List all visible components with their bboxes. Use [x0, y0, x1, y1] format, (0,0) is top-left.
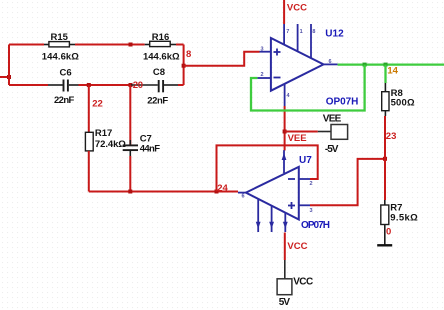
- node junction at top centre (node 20 branch): [129, 43, 133, 47]
- wire: mid row to C6: [9, 84, 48, 86]
- svg-text:1: 1: [300, 29, 303, 35]
- svg-text:R7: R7: [390, 202, 402, 213]
- svg-text:VEE: VEE: [323, 114, 342, 125]
- wire: node 8 vertical: [183, 45, 185, 86]
- VEE power box: [323, 114, 348, 155]
- pin 8 lead: [310, 24, 312, 58]
- wire: C7 down to bottom row: [129, 156, 131, 192]
- svg-text:14: 14: [387, 65, 398, 76]
- svg-text:20: 20: [133, 80, 143, 91]
- svg-text:3: 3: [261, 47, 264, 53]
- pin 1 lead: [297, 24, 299, 52]
- ground: [377, 244, 392, 246]
- resistor R8: [382, 88, 415, 111]
- pin 4 lead: [284, 84, 286, 106]
- wire: C6 to node 22 junction: [79, 84, 131, 86]
- svg-text:6: 6: [329, 59, 332, 65]
- wire: between R15 and R16: [75, 44, 145, 46]
- op-amp U12: [257, 24, 358, 107]
- resistor R7: [381, 202, 418, 224]
- wire: node 8 to U12 pin3 path: [184, 52, 260, 66]
- wire: node 20 vertical down to C7: [129, 85, 131, 145]
- junction at C7 bottom: [128, 190, 132, 194]
- svg-text:72.4kΩ: 72.4kΩ: [95, 139, 126, 150]
- svg-text:VEE: VEE: [288, 133, 307, 144]
- pin 5 lead with down arrow: [271, 206, 273, 232]
- wire: node 22 vertical down to R17: [88, 85, 90, 132]
- resistor R16: [143, 32, 180, 62]
- svg-text:OP07H: OP07H: [326, 96, 359, 107]
- wire: R16 out to corner: [176, 44, 184, 46]
- svg-text:22: 22: [92, 99, 103, 110]
- svg-text:2: 2: [310, 181, 313, 187]
- resistor R17: [85, 128, 126, 151]
- svg-text:23: 23: [386, 131, 397, 142]
- green junction at feedback: [363, 63, 367, 67]
- wire: R7 to ground: [384, 225, 386, 246]
- svg-text:C6: C6: [60, 67, 72, 78]
- wire: left vertical: [8, 45, 10, 86]
- pin 6 output lead: [324, 63, 338, 65]
- svg-text:9.5kΩ: 9.5kΩ: [390, 213, 418, 224]
- green junction at R8: [384, 63, 388, 67]
- pin 4 lead with down arrow: [284, 213, 286, 232]
- svg-text:0: 0: [386, 226, 391, 237]
- wire: input stub at left edge: [0, 76, 9, 78]
- junction at U7 feedback corner: [215, 190, 219, 194]
- wire: green output net: [338, 63, 444, 65]
- svg-text:8: 8: [312, 29, 315, 35]
- svg-text:144.6kΩ: 144.6kΩ: [143, 51, 180, 62]
- svg-text:VCC: VCC: [287, 2, 307, 13]
- pin 7 lead with up arrow: [283, 150, 285, 173]
- resistor R15: [42, 32, 79, 62]
- wire: top row to R15: [9, 44, 44, 46]
- node junction at left input: [7, 75, 11, 79]
- wire: R17 down to bottom row: [88, 151, 90, 192]
- svg-text:144.6kΩ: 144.6kΩ: [42, 51, 79, 62]
- capacitor C6: [48, 67, 79, 106]
- wire: green feedback loop to U12 pin 2: [251, 65, 365, 111]
- svg-text:8: 8: [186, 49, 191, 60]
- svg-text:OP07H: OP07H: [301, 220, 330, 231]
- junction at R7 top branch: [383, 157, 387, 161]
- pin 6 output lead: [238, 192, 246, 194]
- svg-text:24: 24: [217, 183, 228, 194]
- svg-text:44nF: 44nF: [140, 144, 160, 155]
- svg-text:C8: C8: [153, 67, 165, 78]
- svg-text:3: 3: [310, 208, 313, 214]
- wire: U7 plus pin to R7 branch: [310, 159, 385, 205]
- svg-text:R16: R16: [152, 32, 169, 43]
- wire: green down to R8: [384, 65, 386, 83]
- svg-text:7: 7: [286, 29, 289, 35]
- pin 3 lead: [260, 51, 271, 53]
- wire: U7 pin4 down to VCC box: [284, 233, 286, 261]
- node 22 junction: [87, 83, 91, 87]
- node 8 junction: [182, 64, 186, 68]
- wire: VEE node to VEE box: [285, 131, 318, 133]
- svg-text:22nF: 22nF: [54, 95, 74, 106]
- svg-text:U7: U7: [299, 155, 312, 166]
- wire: R8 down to node 23 and R7: [384, 111, 386, 116]
- svg-text:500Ω: 500Ω: [391, 97, 415, 108]
- node 20 junction: [129, 83, 133, 87]
- VEE node junction: [283, 130, 287, 134]
- VCC power box: [277, 277, 313, 309]
- svg-text:R15: R15: [51, 32, 69, 43]
- op-amp U7 (mirrored, pointing left): [238, 150, 330, 232]
- capacitor C7: [123, 134, 160, 157]
- wire: VCC down to U12 pin 7: [283, 0, 285, 24]
- svg-text:6: 6: [242, 193, 245, 199]
- svg-text:R17: R17: [95, 128, 112, 139]
- wire: U12 pin 4 down to VEE node: [284, 106, 286, 151]
- wire: bottom row horizontal: [89, 191, 238, 193]
- wire: C8 to node 8 vertical: [178, 84, 184, 86]
- svg-text:-5V: -5V: [325, 144, 339, 155]
- svg-text:VCC: VCC: [293, 277, 313, 288]
- svg-text:22nF: 22nF: [147, 95, 168, 106]
- pin 1 lead with down arrow: [257, 199, 259, 232]
- pin 3 lead (plus): [299, 204, 310, 206]
- svg-text:2: 2: [261, 72, 264, 78]
- svg-text:5V: 5V: [279, 297, 291, 308]
- capacitor C8: [131, 67, 178, 106]
- pin 7 lead: [283, 24, 285, 45]
- svg-text:U12: U12: [325, 29, 344, 40]
- svg-text:VCC: VCC: [287, 241, 307, 252]
- wire: U7 feedback loop (left vertical, top, right vertical): [217, 145, 318, 191]
- pin 2 lead (minus): [299, 178, 310, 180]
- pin 2 lead: [257, 77, 271, 79]
